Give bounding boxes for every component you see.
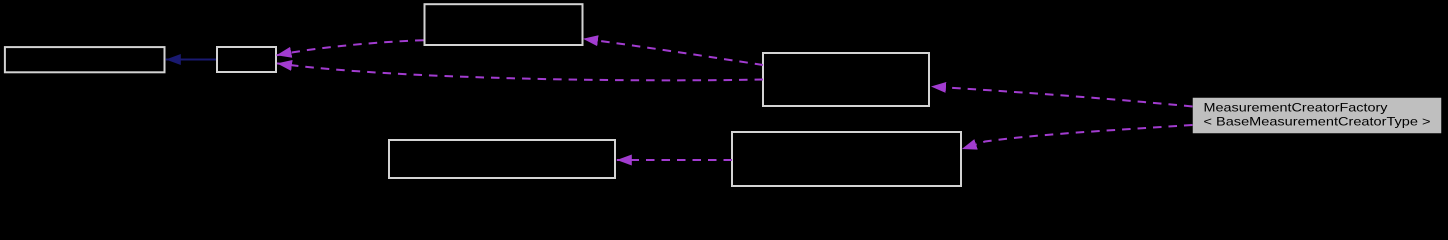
edge B to A (solid blue inheritance arrow) bbox=[166, 59, 216, 61]
edge G to F (dashed purple) bbox=[962, 125, 1193, 149]
svg-text:MeasurementCreatorFactory: MeasurementCreatorFactory bbox=[1204, 100, 1388, 114]
node B (small box) bbox=[217, 47, 276, 72]
edge F to E (dashed purple) bbox=[617, 159, 732, 161]
node D (middle box) bbox=[763, 53, 929, 106]
edge D to C (dashed purple) bbox=[583, 39, 763, 65]
node F (bottom middle box) bbox=[732, 132, 961, 186]
node C (top box) bbox=[425, 4, 583, 45]
edge G to D (dashed purple) bbox=[931, 87, 1193, 107]
node E (bottom left box) bbox=[389, 140, 615, 178]
svg-text:< BaseMeasurementCreatorType >: < BaseMeasurementCreatorType > bbox=[1204, 114, 1431, 128]
edge C to B (dashed purple) bbox=[277, 40, 424, 55]
node A (left box) bbox=[5, 47, 165, 72]
edge D to B (dashed purple long) bbox=[277, 63, 763, 80]
node G MeasurementCreatorFactory (highlighted) bbox=[1193, 98, 1441, 133]
